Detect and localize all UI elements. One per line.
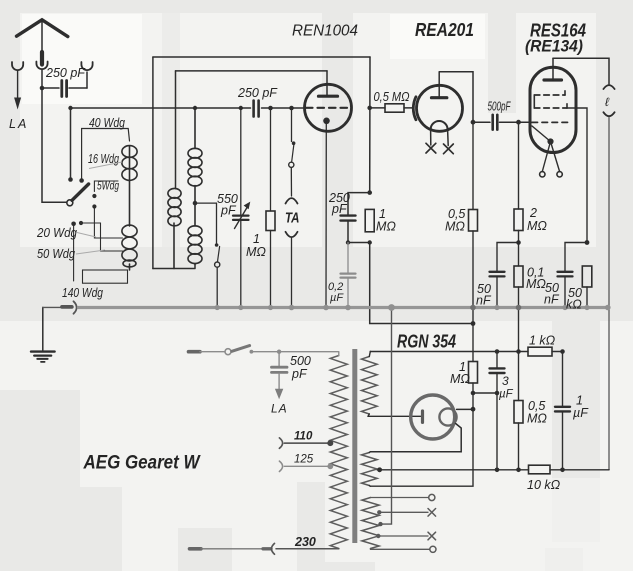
svg-text:10 kΩ: 10 kΩ xyxy=(527,478,561,492)
svg-text:MΩ: MΩ xyxy=(246,245,266,259)
filament arc RGN xyxy=(439,408,456,425)
wire filament lead 2 xyxy=(370,424,461,452)
node antenna junction xyxy=(40,86,45,91)
node screen junction xyxy=(585,240,590,245)
resistor R1 1M grid leak xyxy=(266,108,275,308)
svg-text:1 kΩ: 1 kΩ xyxy=(529,334,556,348)
tube RES164 xyxy=(530,58,576,177)
wire rail to contact xyxy=(70,108,72,180)
node anode junction xyxy=(367,106,372,111)
wire screen grid out xyxy=(567,108,587,243)
wire coil bottoms xyxy=(153,265,195,269)
jack 230 xyxy=(190,547,202,551)
filament X marks xyxy=(426,143,453,153)
wire HV top corner xyxy=(369,351,371,353)
svg-text:50 Wdg: 50 Wdg xyxy=(37,247,75,261)
svg-text:REA201: REA201 xyxy=(415,19,474,40)
jack L top xyxy=(603,85,614,89)
wire filament lead 1 xyxy=(457,408,473,410)
wire left vertical xyxy=(152,57,154,269)
resistor R3 0.5M xyxy=(370,104,413,112)
svg-text:1: 1 xyxy=(253,232,260,246)
wire grid rail right xyxy=(262,107,307,109)
svg-text:AEG Gearet W: AEG Gearet W xyxy=(83,452,201,474)
capacitor 250pF coupling xyxy=(341,193,370,243)
switch wave selector xyxy=(67,184,89,206)
resistor R10 1k xyxy=(528,347,552,356)
wire output bottom to jack xyxy=(371,546,437,552)
jack 110 xyxy=(279,438,282,448)
svg-text:pF: pF xyxy=(220,204,237,218)
node filament CT xyxy=(377,467,382,472)
svg-text:500pF: 500pF xyxy=(488,100,512,114)
capacitor 0.2uF gray xyxy=(341,243,356,308)
wire tap to switch xyxy=(195,203,217,243)
jack chassis bus xyxy=(62,301,77,313)
svg-text:REN1004: REN1004 xyxy=(292,23,358,40)
svg-text:0,5 MΩ: 0,5 MΩ xyxy=(374,89,410,104)
switch shortwave xyxy=(215,243,220,267)
resistor R4 0.5M anode load xyxy=(469,122,478,323)
wire RES anode up xyxy=(553,58,609,84)
wire down to RGN rail xyxy=(370,243,473,324)
wire antenna down to switch xyxy=(42,88,67,202)
wire switch to bus xyxy=(216,267,218,307)
tube REN1004 xyxy=(305,71,352,131)
svg-text:125: 125 xyxy=(294,454,314,466)
wire antenna to junction xyxy=(41,70,43,88)
svg-text:µF: µF xyxy=(330,292,344,304)
svg-text:MΩ: MΩ xyxy=(450,372,470,386)
antenna jack xyxy=(36,62,47,70)
jack 125 xyxy=(279,461,282,471)
jack TA top xyxy=(286,168,298,204)
anode bar RGN xyxy=(421,411,424,422)
capacitor 50nF left xyxy=(490,243,519,308)
wire main bus xyxy=(79,306,609,309)
resistor R9 50k xyxy=(582,266,592,308)
capacitor 250pF grid xyxy=(254,101,259,117)
node 3uF junctions xyxy=(471,391,476,396)
svg-text:(RE134): (RE134) xyxy=(525,38,583,56)
svg-text:110: 110 xyxy=(294,431,313,443)
capacitor C 3uF xyxy=(473,352,505,470)
switch pickup xyxy=(289,108,296,167)
wire 140Wdg bracket xyxy=(83,270,128,283)
LA jack with arrow xyxy=(12,62,23,110)
svg-text:MΩ: MΩ xyxy=(376,220,396,234)
coil L2 feedback xyxy=(168,188,181,268)
node coupling junction xyxy=(471,120,476,125)
node bus junctions xyxy=(215,304,611,311)
resistor R6 2M xyxy=(514,122,523,266)
wire anode top rail xyxy=(153,56,370,58)
svg-text:kΩ: kΩ xyxy=(566,298,582,312)
coil L1 antenna coil xyxy=(122,146,137,270)
winding output xyxy=(362,498,379,549)
svg-text:LA: LA xyxy=(271,402,288,416)
svg-text:2: 2 xyxy=(529,206,537,220)
transformer core xyxy=(352,349,357,543)
wire 1k rail xyxy=(370,351,562,353)
svg-text:MΩ: MΩ xyxy=(526,277,546,291)
wire grid rail xyxy=(71,107,251,109)
wire output CT to bus xyxy=(378,308,391,527)
capacitor C 1uF xyxy=(555,352,570,470)
capacitor 50nF right xyxy=(558,243,588,308)
wire ground to bus xyxy=(43,306,62,308)
svg-text:nF: nF xyxy=(544,293,560,307)
svg-text:µF: µF xyxy=(499,389,514,401)
svg-text:RGN 354: RGN 354 xyxy=(397,332,456,352)
svg-text:5Wdg: 5Wdg xyxy=(97,181,119,193)
wire cathode down xyxy=(325,122,327,308)
svg-text:MΩ: MΩ xyxy=(527,412,547,426)
switch mains xyxy=(189,350,201,354)
svg-text:MΩ: MΩ xyxy=(445,220,465,234)
wire primary top xyxy=(279,352,339,356)
wire contact down xyxy=(73,224,75,281)
wire speaker down xyxy=(608,118,610,470)
node switch contacts xyxy=(68,177,96,226)
svg-text:500: 500 xyxy=(290,354,311,368)
node coil tap xyxy=(193,201,198,206)
svg-text:nF: nF xyxy=(476,294,492,308)
resistor R7 0.1M xyxy=(514,266,523,352)
wire coupling rail second xyxy=(176,70,328,72)
svg-text:LA: LA xyxy=(9,117,28,131)
wire anode rail down xyxy=(369,57,371,193)
resistor R11 10k xyxy=(377,465,609,474)
tube RGN354 xyxy=(411,395,455,439)
capacitor 250pF antenna xyxy=(42,81,87,97)
capacitor 500pF coupling xyxy=(473,115,530,130)
ground symbol xyxy=(31,307,55,362)
resistor R5 1M xyxy=(370,324,477,487)
resistor R8 0.5M lower xyxy=(514,352,523,470)
svg-text:MΩ: MΩ xyxy=(527,219,547,233)
svg-text:230: 230 xyxy=(294,535,316,549)
svg-text:40 Wdg: 40 Wdg xyxy=(89,116,125,130)
capacitor 550pF variable xyxy=(233,108,250,308)
antenna xyxy=(17,20,68,65)
svg-text:µF: µF xyxy=(573,406,589,420)
svg-text:250 pF: 250 pF xyxy=(237,86,278,100)
wire feedback coil top xyxy=(175,71,177,189)
tube REA201 xyxy=(413,72,462,146)
capacitor 500pF mains xyxy=(278,352,280,366)
jack L bottom xyxy=(603,112,614,116)
winding HV secondary xyxy=(362,357,378,415)
winding primary xyxy=(330,356,347,549)
svg-text:140 Wdg: 140 Wdg xyxy=(62,286,103,300)
leader lines xyxy=(76,162,122,254)
second antenna jack xyxy=(81,62,92,88)
svg-text:TA: TA xyxy=(285,211,300,227)
wire tap 50Wdg xyxy=(81,223,123,251)
wire tap 20Wdg xyxy=(94,207,122,239)
svg-text:250 pF: 250 pF xyxy=(45,66,86,80)
svg-text:3: 3 xyxy=(502,374,509,388)
wire output top to jack xyxy=(371,494,435,500)
wire 40Wdg tap xyxy=(82,129,130,181)
wire output tap1 to X xyxy=(377,509,436,517)
wire HV to anode xyxy=(368,415,421,417)
wire 5Wdg bracket xyxy=(94,181,118,192)
svg-text:pF: pF xyxy=(331,202,348,216)
winding filament RGN xyxy=(362,453,378,486)
svg-text:20 Wdg: 20 Wdg xyxy=(36,226,77,240)
resistor R2 1M xyxy=(346,209,374,244)
coil L3 grid coil xyxy=(188,108,202,265)
jack TA bottom xyxy=(286,232,298,308)
svg-text:pF: pF xyxy=(291,367,308,381)
wire output tap2 to X xyxy=(376,532,436,540)
node rgn rail junction xyxy=(471,321,476,326)
node rail junctions xyxy=(68,106,294,111)
wire REA anode to coupling xyxy=(440,72,473,122)
